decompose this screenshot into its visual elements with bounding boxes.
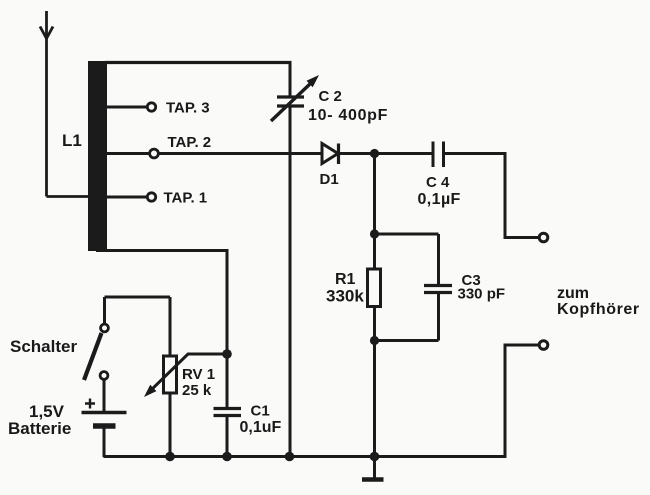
svg-text:C 2: C 2 [319, 88, 342, 105]
battery 1,5V [8, 399, 127, 458]
capacitor C3 330pF [424, 234, 505, 341]
rail node C1 [222, 452, 232, 462]
svg-text:D1: D1 [320, 171, 339, 188]
svg-text:C1: C1 [251, 403, 270, 420]
ground rail [104, 455, 507, 458]
antenna [40, 11, 90, 197]
tap TAP.2 [106, 134, 211, 158]
wire C2 branch to ground rail [289, 106, 292, 457]
capacitor C1 0,1uF [214, 403, 282, 458]
label zum Kopfhoerer [557, 285, 640, 318]
wire top link R1 to C3 [375, 233, 439, 236]
svg-text:0,1uF: 0,1uF [240, 419, 282, 436]
wire bottom link R1 to C3 [375, 339, 439, 342]
svg-text:10- 400pF: 10- 400pF [308, 107, 388, 124]
wire R1 to bottom node [373, 306, 376, 341]
wire coil bottom to C1 column [96, 251, 227, 409]
svg-text:TAP. 2: TAP. 2 [168, 134, 212, 151]
lower headphone terminal [505, 341, 548, 457]
wire TAP.2 to C4 (detector row) [159, 152, 433, 155]
rail node ground [370, 452, 380, 462]
resistor R1 330k [326, 269, 381, 307]
node R1/C3 bottom [370, 336, 379, 345]
tap TAP.3 [106, 100, 210, 117]
tap TAP.1 [106, 190, 207, 207]
wire bottom node to ground rail [373, 341, 376, 457]
svg-text:C 4: C 4 [426, 174, 450, 191]
switch S (Schalter) [10, 297, 170, 411]
coil L1 [88, 61, 107, 251]
node at D1 cathode [370, 149, 379, 158]
wire coil top to C2 [105, 61, 292, 64]
svg-text:Kopfhörer: Kopfhörer [557, 301, 640, 318]
svg-text:RV 1: RV 1 [182, 366, 215, 383]
svg-text:330k: 330k [326, 287, 364, 306]
diode D1 [320, 144, 339, 189]
svg-text:25 k: 25 k [182, 382, 212, 399]
wire node to R1 [373, 154, 376, 270]
rail node C2 [285, 452, 295, 462]
capacitor C2 (variable, 10-400pF) [271, 63, 388, 125]
node RV1 wiper to C1 column [222, 349, 232, 359]
ground [362, 457, 384, 480]
svg-text:TAP. 3: TAP. 3 [166, 100, 210, 117]
svg-text:L1: L1 [62, 131, 82, 150]
upper headphone terminal [505, 152, 548, 242]
svg-text:R1: R1 [335, 271, 356, 288]
svg-text:TAP. 1: TAP. 1 [164, 190, 208, 207]
svg-text:zum: zum [557, 285, 589, 302]
svg-text:Schalter: Schalter [10, 337, 77, 356]
rail node RV1 [165, 452, 175, 462]
svg-text:0,1µF: 0,1µF [418, 191, 461, 208]
svg-text:Batterie: Batterie [8, 419, 71, 438]
potentiometer RV1 25k [144, 297, 227, 457]
capacitor C4 0,1uF [418, 142, 507, 209]
svg-text:330 pF: 330 pF [458, 286, 506, 303]
node R1/C3 top [370, 229, 379, 238]
